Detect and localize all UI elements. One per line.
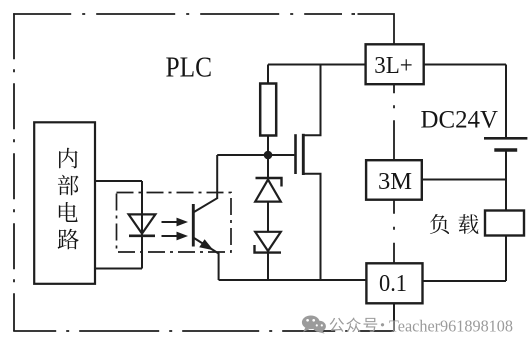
svg-text:3M: 3M [378,168,412,195]
phototransistor collector wire up [216,155,218,199]
phototransistor emitter diagonal [194,238,219,254]
wire: 0.1 stub down to border [393,303,395,331]
PLC border right dash-dot between 3L+ and 3M [393,84,395,160]
wire: zener VZ2 to bottom rail [267,253,269,280]
wire: node to zener VZ1 [267,155,269,178]
svg-text:Teacher961898108: Teacher961898108 [389,316,513,335]
battery GB negative plate [494,148,517,151]
watermark text 公众号 [330,318,344,332]
wire: top rail to 3L+ terminal [268,64,366,66]
MOSFET V1 gate bar [294,134,297,174]
label 负载 (load) [430,214,449,234]
wire: 3M to supply/load node [422,179,506,181]
wire: bottom rail to 0.1 terminal [219,279,367,281]
wire: 3L+ to DC24V supply [424,64,506,66]
zener VZ1 triangle (points up) [255,180,281,202]
PLC border right dash-dot between 3M and 0.1 [393,200,395,264]
svg-text:PLC: PLC [166,53,213,84]
wire: top rail stub to resistor R1 [267,65,269,84]
label 内部电路 (internal circuit) [59,148,78,169]
light arrow 1 [162,221,179,223]
svg-text:DC24V: DC24V [421,105,499,134]
PLC border top-right solid segment into 3L+ stub [358,14,395,44]
wire: supply down to battery + [505,65,507,139]
svg-text:3L+: 3L+ [374,53,413,79]
zener VZ2 triangle (points down) [255,232,281,251]
light arrow 2 [162,235,179,237]
terminal box 0.1 [366,263,422,303]
internal circuit box (内部电路) [34,122,95,283]
load box (负载) [485,211,524,236]
node junction dot [264,151,273,160]
phototransistor emitter wire down [218,253,220,280]
svg-text:0.1: 0.1 [379,270,407,297]
LED cathode bar [129,235,155,238]
wire: battery - down to load [505,150,507,211]
wire: LED vertical branch [141,181,143,269]
phototransistor collector diagonal [194,198,217,212]
wire: internal box to LED anode (top) [95,180,142,182]
MOSFET V1 channel bar [302,134,305,175]
wire: collector node to MOSFET gate [217,154,294,156]
PLC enclosure border bottom edge [13,330,394,332]
watermark icon (chat bubbles) [302,316,326,334]
MOSFET V1 drain wire [303,65,321,136]
watermark separator dot [381,323,384,326]
wire between zeners [267,202,269,232]
MOSFET V1 source wire [303,174,321,280]
resistor R1 body [260,84,276,136]
phototransistor emitter arrowhead [199,239,213,250]
zener VZ1 cathode bar (hook right) [256,178,282,187]
PLC enclosure border (dash-dot) left edge [13,13,15,331]
optocoupler U1 boundary (dash-dot box) [117,193,232,253]
zener VZ2 cathode bar (hook left) [255,245,282,253]
phototransistor Q1 base bar [192,204,195,247]
terminal box 3L+ [366,44,424,84]
battery GB positive plate [484,137,527,140]
terminal box 3M [366,160,422,200]
wire: resistor R1 to node [267,136,269,156]
wire: 0.1 to load bottom [423,280,507,282]
PLC enclosure border top edge [13,13,342,15]
LED D1 of optocoupler (triangle) [129,214,156,233]
wire: internal box to LED cathode (bottom) [95,268,142,270]
wire: load to 0.1 wire [505,236,507,282]
